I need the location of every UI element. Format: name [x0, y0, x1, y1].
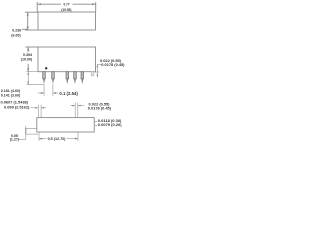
svg-text:0.141 (3.60): 0.141 (3.60): [1, 93, 21, 97]
svg-text:0.0079 (0.20): 0.0079 (0.20): [98, 122, 122, 127]
svg-text:0.099 (2.5162): 0.099 (2.5162): [4, 104, 30, 109]
svg-text:0.1 (2.54): 0.1 (2.54): [59, 91, 78, 96]
svg-text:0.236: 0.236: [12, 28, 21, 32]
svg-text:0.394: 0.394: [23, 53, 32, 57]
svg-text:0.0178 (0.45): 0.0178 (0.45): [88, 106, 112, 111]
svg-text:(6.00): (6.00): [11, 34, 21, 38]
svg-text:(1.27): (1.27): [10, 138, 20, 142]
svg-text:0.77: 0.77: [63, 2, 69, 6]
svg-text:(10.00): (10.00): [21, 58, 33, 62]
svg-text:0.5 (12.70): 0.5 (12.70): [48, 137, 67, 141]
svg-text:0.0178 (0.45): 0.0178 (0.45): [101, 62, 125, 67]
svg-text:(19.50): (19.50): [61, 8, 71, 12]
